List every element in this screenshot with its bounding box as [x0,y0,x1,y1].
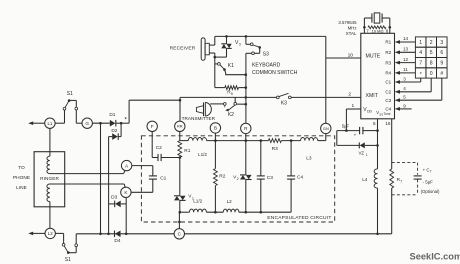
wire A to C1 [132,165,153,167]
svg-text:RINGER: RINGER [40,176,59,181]
svg-text:5: 5 [430,50,433,56]
wire L1 to ringer [49,128,51,156]
wire column G-junction to bottom rail [100,123,102,234]
node K [121,187,131,197]
node RR [175,121,185,131]
keypad 12 keys [415,37,426,47]
svg-text:1: 1 [366,153,368,157]
svg-text:Tone: Tone [384,112,391,116]
receiver symbol [201,38,205,60]
node A [121,160,131,170]
svg-text:C4: C4 [385,107,391,112]
svg-text:#: # [440,71,443,77]
svg-text:L3: L3 [306,155,312,161]
svg-text:11: 11 [403,67,408,72]
svg-text:COMMON SWITCH: COMMON SWITCH [252,70,298,76]
diode D3 [115,201,121,208]
wire G to D1 [92,122,109,124]
svg-text:R1: R1 [184,148,190,154]
svg-text:S3: S3 [263,52,269,58]
svg-text:9: 9 [440,61,443,67]
svg-text:XMIT: XMIT [366,93,379,99]
svg-text:SeekIC.com: SeekIC.com [410,252,460,262]
wire ringer to L2 [49,202,51,229]
svg-text:G: G [85,121,89,126]
svg-text:MUTE: MUTE [366,53,381,59]
wire R stub [245,134,247,141]
svg-text:*: * [124,117,127,124]
svg-text:L1: L1 [47,121,52,126]
svg-text:+ C: + C [423,167,430,172]
svg-text:7: 7 [366,28,369,33]
svg-text:5μF: 5μF [342,124,350,129]
capacitor C3 [260,141,262,176]
junction [107,233,110,236]
svg-text:2: 2 [237,177,239,181]
svg-text:ENCAPSULATED CIRCUIT: ENCAPSULATED CIRCUIT [267,215,331,221]
svg-text:1: 1 [352,103,355,109]
wire L1 to S1 [55,122,64,124]
svg-text:PHONE: PHONE [13,175,30,181]
svg-text:XTAL: XTAL [346,31,357,36]
svg-text:VZ: VZ [359,151,365,156]
wire GN column [325,36,327,123]
capacitor C2 [152,157,158,159]
svg-text:7: 7 [419,61,422,67]
wire VDD pin 1 [346,108,360,110]
wire crystal to pins [363,18,365,33]
node C [174,229,184,239]
svg-text:R2: R2 [385,50,391,55]
inductor L3 [301,137,318,140]
terminal arrow L2 [28,232,33,236]
wire C1 to K [131,191,153,193]
diode D1 [110,120,116,127]
node GN [321,123,331,133]
svg-text:R3: R3 [272,146,278,152]
wire D2col to rail [108,204,110,234]
svg-text:7: 7 [430,170,432,174]
wire inner top rail [180,140,189,142]
svg-text:KEYBOARD: KEYBOARD [252,63,281,69]
svg-text:(Optional): (Optional) [421,189,440,194]
svg-text:0: 0 [430,71,433,77]
wire XMIT rail [180,96,277,98]
suppressor V3 [226,36,228,43]
wire D1 to corner [116,122,129,124]
ringer box [34,152,65,207]
svg-text:C: C [178,231,182,236]
keypad column wires pins 3 4 5 [395,80,400,84]
wire receiver column [214,57,216,88]
junction [225,35,228,38]
svg-text:B: B [214,126,217,131]
svg-text:C1: C1 [385,80,391,85]
junction [125,233,128,236]
ringer coil lower [47,184,50,202]
svg-text:9: 9 [403,103,406,108]
wire S1 to G [76,122,82,124]
svg-text:R2: R2 [219,173,225,179]
capacitor C1 [152,166,154,176]
resistor R3 [268,139,281,143]
svg-text:*: * [420,72,422,78]
node B [210,123,220,133]
inductor L1/2 upper [188,137,206,140]
svg-text:K: K [124,190,128,195]
svg-text:A: A [125,163,129,168]
wire F stub [151,132,153,158]
svg-text:1: 1 [419,40,422,46]
svg-text:K3: K3 [281,100,287,106]
wire pin6 column [377,119,379,169]
wire L4 to rail [377,188,379,234]
switch K3 [276,96,279,99]
node L2 [45,228,55,238]
relay contact K1 [215,63,218,65]
suppressor V2 [245,141,247,175]
wire RR riser [179,97,181,121]
wire ringer tap to K [50,183,124,185]
switch S1 (top) [64,110,66,123]
svg-text:C3: C3 [267,175,273,181]
svg-text:C4: C4 [297,174,303,180]
resistor R2 [214,141,216,169]
junction [245,103,248,106]
capacitor 5uF [337,130,360,132]
svg-text:GN: GN [323,126,329,131]
inductor L2 [223,209,239,212]
transmitter symbol [196,106,203,114]
node F [147,121,157,131]
svg-text:K1: K1 [228,63,234,69]
junction [245,73,248,76]
svg-text:LINE: LINE [16,185,27,191]
svg-text:D3: D3 [111,194,117,200]
svg-text:3: 3 [239,43,241,47]
switch S1 (bottom) [55,232,63,234]
svg-text:S1: S1 [67,91,73,97]
diode D4 [115,231,121,238]
wire pin16 column [391,119,393,169]
node L1 [45,118,55,128]
capacitor C7 optional [392,162,418,164]
wire GN to rail [325,134,327,141]
svg-text:C2: C2 [385,90,391,95]
wire riser to top rail [128,100,130,123]
junction [99,233,102,236]
wire C to encapsulated circuit [178,212,180,228]
svg-text:R3: R3 [385,60,391,65]
svg-text:TRANSMITTER: TRANSMITTER [182,116,216,121]
junction [214,211,217,214]
wire rail D1 to RR [129,99,180,101]
svg-text:13: 13 [403,47,409,52]
relay contact K2 [223,103,226,106]
inductor L4 [374,169,377,188]
pin 9 stub [395,107,400,111]
wire RR stub [179,132,181,141]
resistor R1 [178,141,182,158]
svg-text:L1/2: L1/2 [193,199,202,204]
svg-text:6: 6 [440,50,443,56]
wire R7 to rail [391,188,393,234]
junction [245,96,248,99]
svg-text:TO: TO [18,165,25,171]
svg-text:10 MΩ: 10 MΩ [372,28,384,33]
svg-text:3.579545: 3.579545 [338,20,357,25]
svg-text:RECEIVER: RECEIVER [170,46,196,52]
receiver top lead [209,44,215,46]
node R [241,123,251,133]
svg-text:4: 4 [419,50,422,56]
wire L1 terminal lead [33,122,45,124]
ringer coil upper [47,156,50,173]
svg-text:D1: D1 [109,112,115,118]
node junction [99,122,102,125]
svg-text:C2: C2 [156,145,162,151]
svg-text:8: 8 [430,61,433,67]
resistor R7 [390,169,394,188]
svg-text:10: 10 [348,52,354,58]
svg-text:6: 6 [373,121,376,126]
svg-text:7: 7 [400,180,402,184]
svg-text:3: 3 [440,40,443,46]
svg-text:16: 16 [385,121,391,126]
svg-text:4: 4 [403,86,406,91]
keypad row wires pins 14 13 12 11 [395,40,400,44]
svg-text:2: 2 [430,40,433,46]
svg-text:+: + [354,133,357,138]
svg-text:L2: L2 [48,231,53,236]
svg-text:5: 5 [403,95,406,100]
wire L2 terminal lead [33,232,46,234]
junction [179,156,182,159]
junction [345,129,348,132]
svg-text:D2: D2 [111,128,117,134]
svg-text:DD: DD [367,109,372,113]
wire R column [245,53,247,123]
svg-text:RR: RR [177,124,183,129]
svg-text:2: 2 [348,91,351,97]
wire K3 to XMIT pin [291,96,361,98]
junction [179,211,182,214]
wire bottom rail right [185,233,392,235]
receiver bottom lead [209,52,215,54]
wire B stub [214,133,216,141]
svg-text:S1: S1 [65,257,71,263]
wire inner bottom rail [180,211,190,213]
svg-text:8: 8 [386,28,389,33]
crystal XTAL [364,17,372,19]
svg-text:3: 3 [403,76,406,81]
wire D3 to K column [121,203,126,205]
svg-text:F: F [151,124,154,129]
svg-text:K2: K2 [228,112,234,118]
terminal arrow L1 [28,121,33,125]
IC tone dialer U1 [361,33,395,119]
wire MUTE pin 10 [326,57,361,59]
svg-text:L1/2: L1/2 [198,152,207,157]
wire D2 to D3 [108,137,110,204]
resistor 10 Mohm [368,26,386,29]
transmitter output wire [210,103,223,105]
svg-text:- 5μF: - 5μF [423,179,434,184]
wire top rail [215,35,326,37]
node G [82,118,92,128]
svg-text:D4: D4 [114,238,120,244]
wire ringer tap to A [50,173,124,175]
svg-text:MHz: MHz [348,26,357,31]
inductor L1/2 lower [189,209,206,212]
junction [245,35,248,38]
svg-text:R4: R4 [385,71,391,76]
zener VZ1 [336,131,338,146]
switch S3 [245,36,247,44]
svg-text:L4: L4 [362,177,368,182]
capacitor C4 [290,141,292,176]
svg-text:R1: R1 [385,40,391,45]
wire receiver to V3 [215,56,227,58]
svg-text:5: 5 [231,92,233,96]
svg-text:C1: C1 [160,175,166,181]
encapsulated circuit box [141,136,334,222]
svg-text:L2: L2 [227,199,233,204]
suppressor V1 [179,158,181,196]
svg-text:14: 14 [403,36,409,41]
resistor R5 [215,87,225,89]
diode D2 [120,123,122,136]
svg-text:R: R [244,126,248,131]
svg-text:C3: C3 [385,98,391,103]
svg-text:12: 12 [403,57,409,62]
wire K to D3 junction [125,198,127,234]
wire bottom rail left [76,233,174,235]
junction [214,139,217,142]
